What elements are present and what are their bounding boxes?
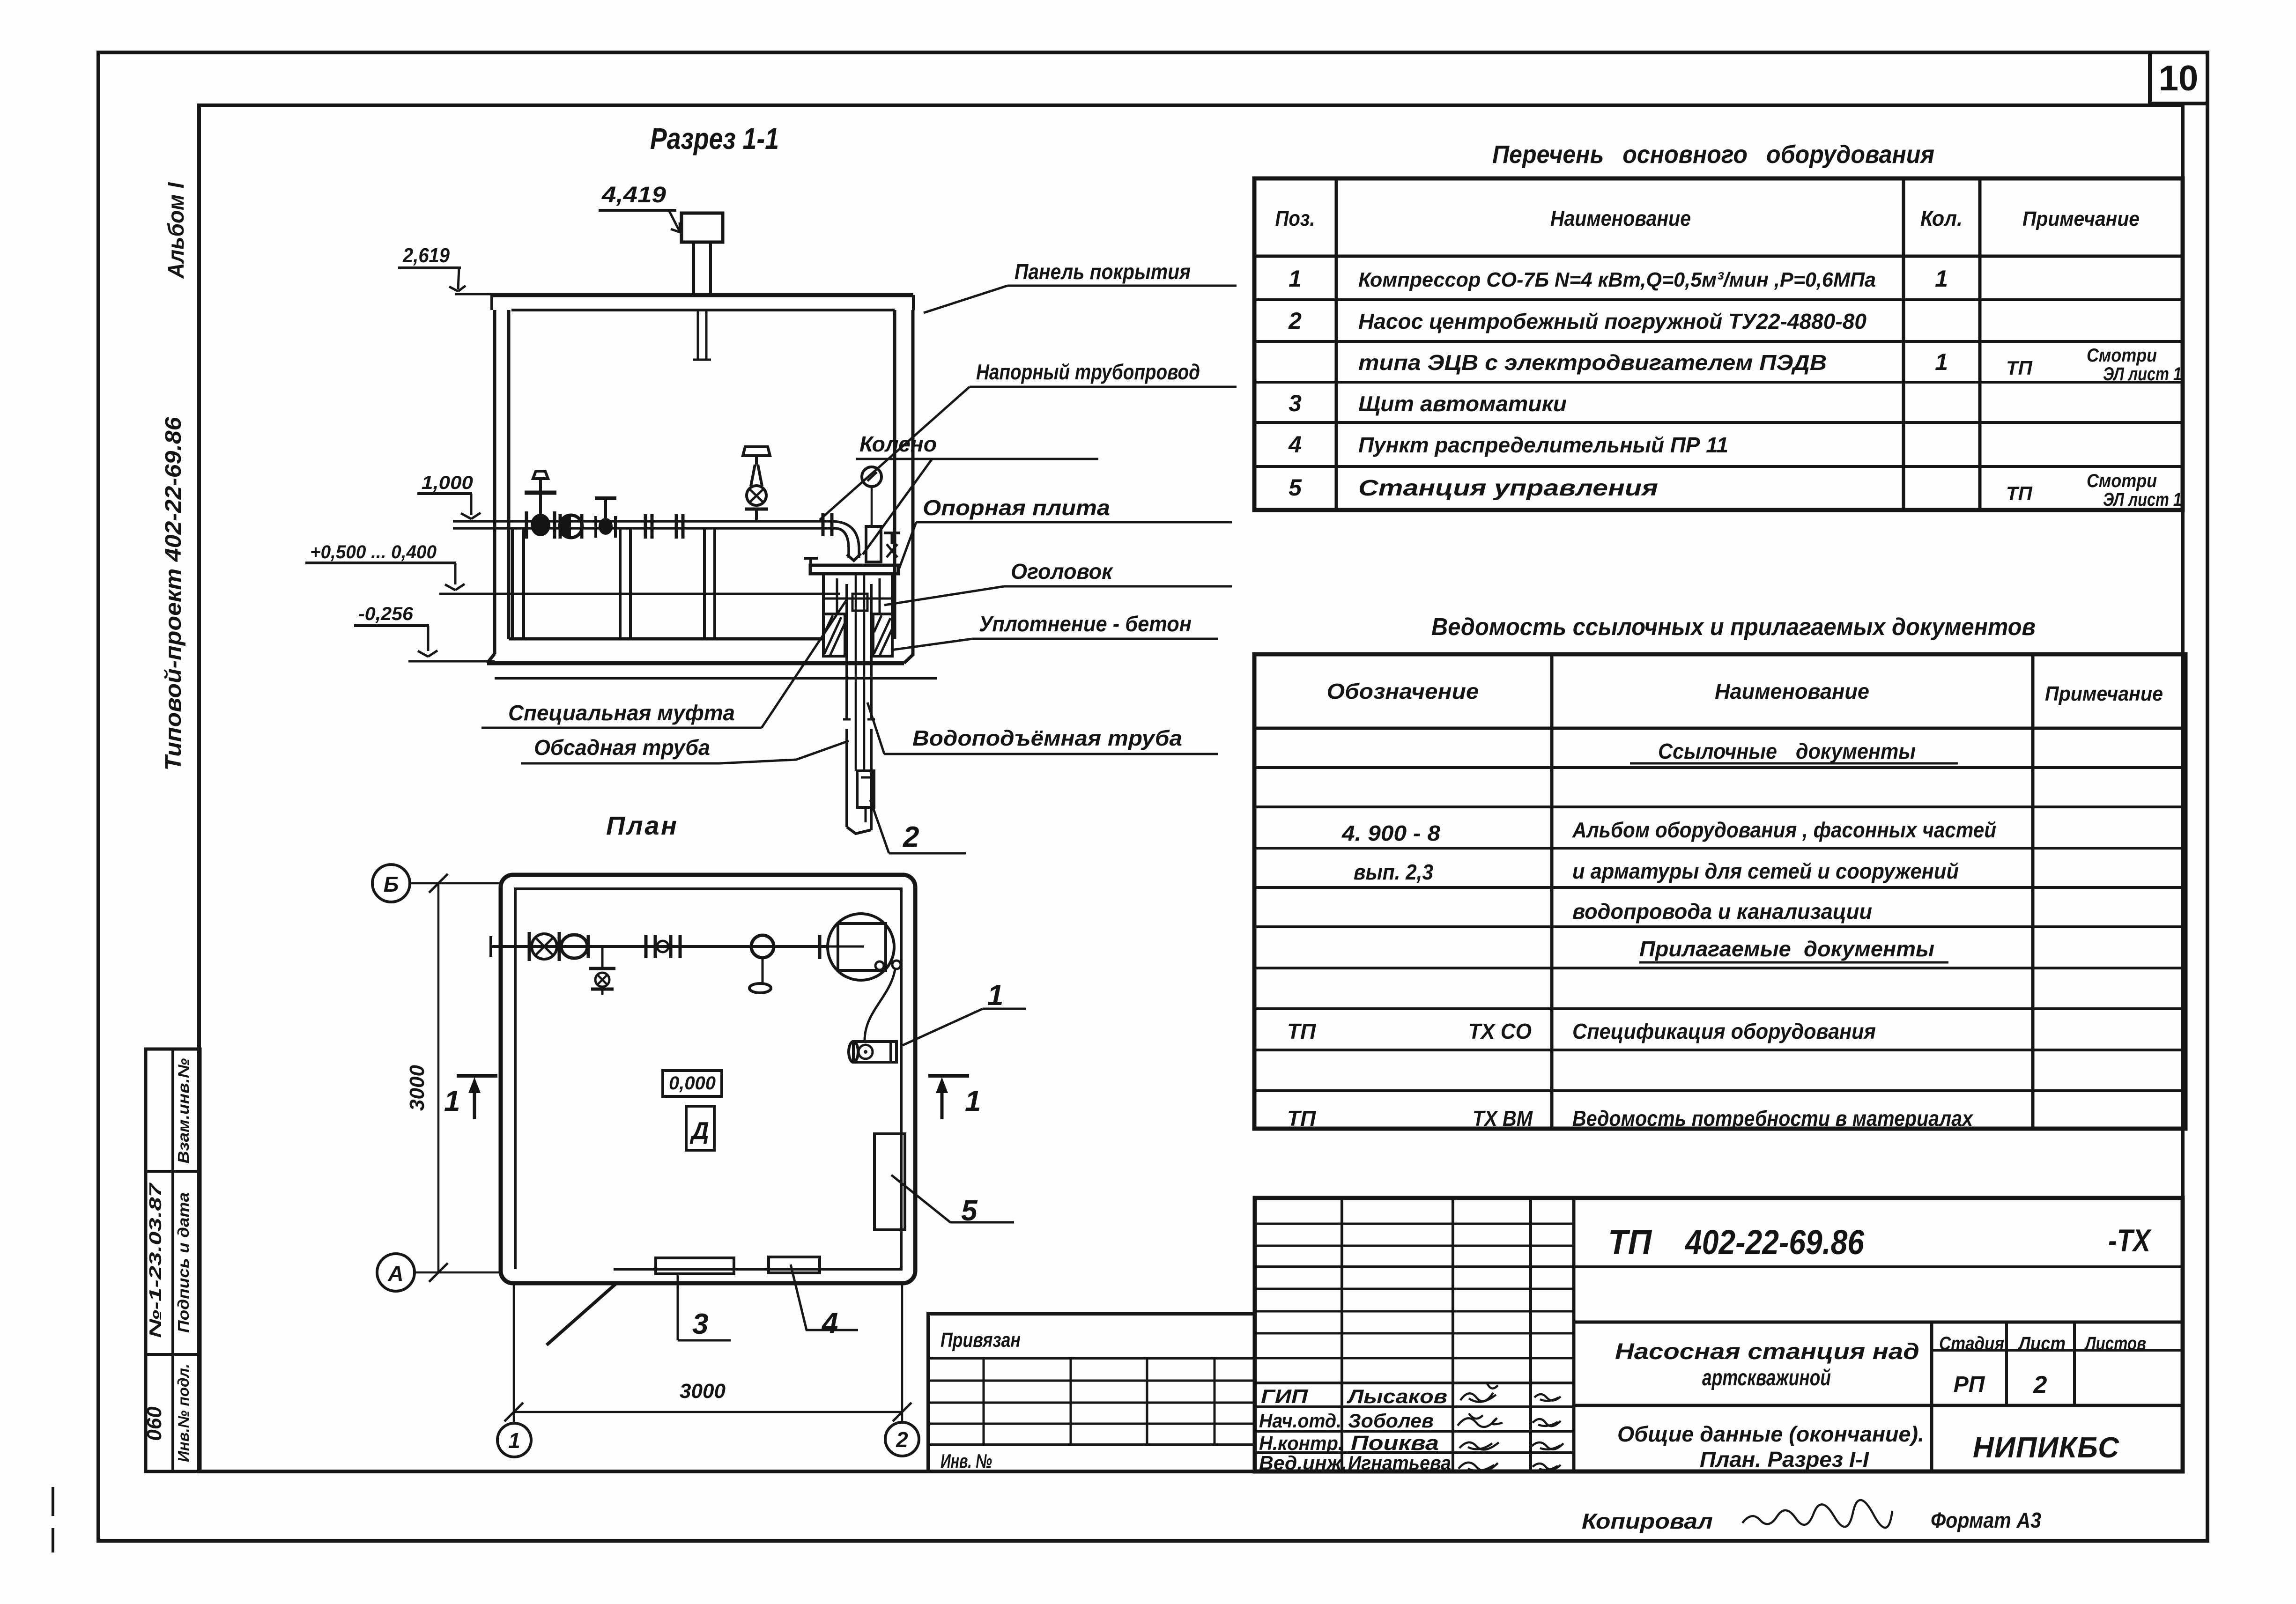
svg-text:Игнатьева: Игнатьева: [1348, 1452, 1451, 1474]
svg-text:Альбом оборудования , фасонных: Альбом оборудования , фасонных частей: [1572, 818, 1996, 842]
documents row: 4.900-8: [1341, 818, 1996, 845]
plan drain branch with small valve: [589, 946, 615, 995]
flange pair before elbow: [823, 513, 832, 536]
equipment table grid: [1254, 178, 2183, 510]
svg-text:10: 10: [2159, 59, 2199, 98]
label: Оголовок: [884, 559, 1232, 605]
svg-text:Поз.: Поз.: [1275, 206, 1315, 230]
flanged spool piece: [645, 514, 683, 539]
elevation mark -0,256: [354, 604, 495, 661]
elevation mark 1,000: [417, 473, 481, 519]
section mark 1 left: [444, 1076, 497, 1119]
label: Опорная плита: [899, 495, 1232, 568]
svg-text:5: 5: [1289, 474, 1302, 501]
svg-text:Обсадная труба: Обсадная труба: [534, 735, 710, 760]
label: Специальная муфта: [481, 599, 847, 728]
fold mark: [52, 1487, 54, 1552]
support plate (опорная плита): [804, 557, 898, 574]
svg-text:060: 060: [143, 1406, 166, 1441]
svg-text:Взам.инв.№: Взам.инв.№: [175, 1058, 192, 1163]
svg-text:Прилагаемые документы: Прилагаемые документы: [1639, 937, 1934, 961]
svg-text:Листов: Листов: [2084, 1333, 2146, 1354]
gate valve with handwheel: [525, 471, 556, 539]
plan flange at well: [818, 935, 822, 959]
vent chimney on roof: [681, 213, 723, 360]
svg-text:Обозначение: Обозначение: [1327, 679, 1479, 703]
plan valve round body: [561, 935, 588, 958]
interior floor line: [509, 637, 823, 641]
svg-text:1: 1: [987, 979, 1003, 1012]
plan gate valve (circle with cross): [529, 932, 559, 961]
horizontal dimension line 3000: [504, 1380, 911, 1421]
svg-text:Разрез 1-1: Разрез 1-1: [650, 122, 779, 155]
label: 5: [891, 1175, 1014, 1227]
elevation mark 2,619: [398, 244, 493, 294]
svg-text:Напорный трубопровод: Напорный трубопровод: [976, 360, 1200, 384]
svg-text:ТП: ТП: [2006, 357, 2033, 379]
svg-text:Насосная станция над: Насосная станция над: [1615, 1339, 1919, 1364]
grid circle А: [377, 1254, 501, 1291]
svg-text:1: 1: [1289, 266, 1302, 292]
svg-text:Формат А3: Формат А3: [1931, 1508, 2041, 1532]
svg-text:Вед.инж.: Вед.инж.: [1259, 1452, 1347, 1474]
svg-text:Лист: Лист: [2017, 1333, 2066, 1354]
grid circle 2: [885, 1284, 919, 1456]
svg-text:0,000: 0,000: [669, 1073, 716, 1094]
svg-text:1: 1: [444, 1085, 460, 1117]
svg-text:ТП: ТП: [1287, 1019, 1316, 1043]
svg-text:артскважиной: артскважиной: [1702, 1366, 1831, 1390]
title block: stage/sheet headers: [1939, 1333, 2146, 1398]
control valve on riser above pipe: [743, 447, 770, 521]
svg-text:1: 1: [1935, 266, 1948, 292]
svg-text:Б: Б: [384, 872, 399, 896]
svg-text:1: 1: [965, 1085, 981, 1117]
svg-text:ЭЛ лист 1: ЭЛ лист 1: [2103, 489, 2182, 510]
svg-text:4,419: 4,419: [601, 183, 666, 207]
label: Водоподъёмная труба: [867, 702, 1218, 754]
documents row: Прилагаемые документы: [1639, 937, 1948, 962]
building right wall: [895, 310, 913, 656]
equipment row 3: [1358, 345, 2182, 384]
inner drawing frame: [199, 105, 2183, 1471]
building left wall: [495, 310, 509, 654]
svg-text:ТП: ТП: [1287, 1106, 1316, 1131]
vertical dimension line 3000: [406, 874, 448, 1282]
cable from well to compressor: [865, 969, 895, 1041]
documents row: ТП ТХ СО: [1287, 1019, 1876, 1043]
bottom slab: [487, 654, 913, 663]
equipment box 4 on bottom wall: [769, 1257, 820, 1273]
svg-text:Типовой-проект 402-22-69.86: Типовой-проект 402-22-69.86: [161, 417, 186, 770]
svg-text:3000: 3000: [680, 1380, 726, 1403]
well casing pipe: [843, 584, 875, 834]
documents row: Ссылочные документы: [1630, 739, 1958, 763]
footer: Копировал / Формат А3: [1582, 1500, 2041, 1533]
equipment row 5: [1288, 431, 1728, 458]
pressure gauge: [862, 467, 881, 562]
svg-text:4: 4: [821, 1307, 838, 1339]
svg-text:ТП: ТП: [2006, 482, 2033, 504]
svg-text:А: А: [387, 1261, 403, 1286]
svg-text:№-1-23.03.87: №-1-23.03.87: [146, 1182, 165, 1338]
svg-text:План. Разрез I-I: План. Разрез I-I: [1700, 1447, 1869, 1471]
svg-text:Специальная муфта: Специальная муфта: [508, 701, 735, 725]
svg-text:Копировал: Копировал: [1582, 1509, 1713, 1533]
elevation mark +0,500...0,400: [305, 542, 465, 590]
wellhead box: [823, 574, 892, 614]
svg-text:Водоподъёмная труба: Водоподъёмная труба: [912, 726, 1182, 750]
svg-text:Альбом I: Альбом I: [164, 182, 189, 279]
water lifting pipe inside casing: [852, 574, 867, 771]
svg-text:ЭЛ лист 1: ЭЛ лист 1: [2103, 364, 2182, 384]
equipment row 6: [1289, 471, 2182, 510]
svg-text:2,619: 2,619: [402, 244, 450, 267]
svg-text:Ведомость потребности в матери: Ведомость потребности в материалах: [1572, 1106, 1974, 1131]
ground line under building: [495, 677, 937, 680]
left bottom strip table: [143, 1049, 200, 1471]
svg-text:Насос центробежный погружной Т: Насос центробежный погружной ТУ22-4880-8…: [1358, 309, 1866, 333]
svg-text:ГИП: ГИП: [1261, 1385, 1308, 1407]
concrete seal hatched right: [873, 614, 892, 656]
label: 2 (pump item): [870, 800, 966, 853]
svg-text:Опорная плита: Опорная плита: [923, 495, 1110, 520]
documents table grid: [1254, 654, 2185, 1129]
svg-text:3: 3: [1289, 390, 1302, 416]
svg-text:ТП: ТП: [1608, 1223, 1652, 1262]
pressure pipe (horizontal, with elbow down): [453, 521, 861, 561]
grid circle Б: [372, 865, 501, 902]
svg-text:Н.контр.: Н.контр.: [1259, 1432, 1343, 1454]
plan pipe: [489, 936, 829, 957]
title block: main frame: [1255, 1198, 2183, 1471]
svg-text:Зоболев: Зоболев: [1348, 1410, 1434, 1432]
pipe support posts: [512, 529, 715, 639]
svg-text:Ведомость ссылочных и прилагае: Ведомость ссылочных и прилагаемых докуме…: [1431, 614, 2036, 641]
title block: left extension (Привязан): [928, 1314, 1255, 1472]
equipment table header: [1275, 206, 2140, 230]
svg-text:-ТХ: -ТХ: [2108, 1223, 2152, 1258]
grid circle 1: [497, 1284, 531, 1457]
svg-text:2: 2: [896, 1427, 908, 1452]
svg-text:3: 3: [692, 1308, 708, 1340]
svg-text:Ссылочные документы: Ссылочные документы: [1658, 739, 1916, 763]
svg-text:Примечание: Примечание: [2022, 207, 2140, 230]
svg-text:4. 900 - 8: 4. 900 - 8: [1341, 821, 1441, 845]
small valve with stem: [595, 498, 616, 538]
0,000 level box: [663, 1071, 722, 1096]
plan inner wall: [515, 889, 901, 1269]
label: Напорный трубопровод: [820, 360, 1237, 520]
svg-text:Инв. №: Инв. №: [941, 1450, 992, 1472]
svg-text:Стадия: Стадия: [1939, 1333, 2004, 1354]
floor level line +0.4: [439, 593, 840, 595]
svg-text:Компрессор СО-7Б N=4 кВт,Q=: Компрессор СО-7Б N=4 кВт,Q=0,5м³/мин ,Р=…: [1358, 268, 1876, 291]
svg-text:2: 2: [2033, 1371, 2047, 1398]
equipment row 1: [1289, 266, 1948, 292]
svg-text:ТХ ВМ: ТХ ВМ: [1473, 1106, 1533, 1131]
svg-text:4: 4: [1288, 431, 1302, 458]
door opening and leaf: [547, 1284, 615, 1345]
documents row: ТП ТХ ВМ: [1287, 1106, 1974, 1131]
svg-text:Общие данные (окончание).: Общие данные (окончание).: [1617, 1422, 1924, 1446]
documents row: вып 2,3: [1354, 859, 1959, 884]
svg-text:Лысаков: Лысаков: [1347, 1385, 1447, 1407]
svg-text:Примечание: Примечание: [2045, 682, 2163, 705]
svg-text:Нач.отд.: Нач.отд.: [1259, 1410, 1341, 1432]
check valve (round body): [560, 514, 582, 539]
svg-text:-0,256: -0,256: [358, 604, 414, 624]
svg-text:РП: РП: [1954, 1372, 1985, 1397]
signatures squiggles: [1458, 1382, 1563, 1471]
label: Колено: [856, 432, 1098, 554]
svg-text:Подпись и дата: Подпись и дата: [175, 1192, 192, 1333]
svg-text:Перечень основного оборудовани: Перечень основного оборудования: [1492, 140, 1934, 169]
svg-text:Панель покрытия: Панель покрытия: [1015, 259, 1191, 284]
svg-text:1: 1: [1935, 349, 1948, 375]
cabinet 5 on right wall: [874, 1134, 905, 1230]
svg-text:Д: Д: [689, 1117, 709, 1145]
equipment row 4: [1289, 390, 1567, 416]
submersible pump: [857, 771, 874, 822]
svg-text:2: 2: [1288, 308, 1302, 334]
equipment box 3 on bottom wall: [656, 1258, 734, 1274]
title block: signature rows: [1259, 1385, 1451, 1474]
svg-text:и арматуры для сетей и сооруж: и арматуры для сетей и сооружений: [1572, 859, 1959, 883]
svg-text:Станция управления: Станция управления: [1358, 476, 1658, 501]
svg-text:Инв.№ подл.: Инв.№ подл.: [175, 1364, 192, 1462]
svg-text:ТХ СО: ТХ СО: [1468, 1019, 1532, 1043]
plan ball valve with stand: [749, 935, 774, 993]
svg-text:3000: 3000: [406, 1065, 429, 1111]
title block: object name: [1615, 1339, 1919, 1390]
section mark 1 right: [928, 1076, 981, 1119]
svg-text:Спецификация оборудования: Спецификация оборудования: [1572, 1019, 1876, 1043]
svg-text:Смотри: Смотри: [2087, 471, 2157, 491]
svg-text:1: 1: [508, 1428, 520, 1453]
svg-text:водопровода и канализации: водопровода и канализации: [1572, 899, 1872, 924]
svg-text:Пункт распределительный ПР 11: Пункт распределительный ПР 11: [1358, 433, 1728, 457]
title block: sheet name: [1617, 1422, 1924, 1471]
svg-text:Смотри: Смотри: [2087, 345, 2157, 366]
documents table header: [1327, 679, 2163, 705]
svg-text:типа ЭЦВ с электродвигателем П: типа ЭЦВ с электродвигателем ПЭДВ: [1358, 350, 1827, 375]
label: Обсадная труба: [521, 735, 849, 763]
svg-text:вып. 2,3: вып. 2,3: [1354, 860, 1433, 884]
small cock on baseplate: [884, 533, 900, 557]
label: Панель покрытия: [924, 259, 1237, 313]
svg-text:Щит автоматики: Щит автоматики: [1358, 392, 1567, 416]
plan flanged spool: [646, 935, 680, 958]
compressor unit (item 1): [849, 1042, 896, 1062]
svg-text:Кол.: Кол.: [1920, 206, 1963, 230]
well circle in plan: [828, 914, 901, 980]
svg-text:Привязан: Привязан: [941, 1329, 1021, 1352]
svg-text:Уплотнение - бетон: Уплотнение - бетон: [979, 612, 1192, 636]
svg-text:Колено: Колено: [859, 432, 937, 456]
label: 4: [791, 1264, 858, 1339]
building roof panel: [492, 295, 913, 310]
svg-text:Оголовок: Оголовок: [1011, 559, 1114, 584]
Д marker box: [686, 1106, 714, 1150]
svg-text:+0,500 ... 0,400: +0,500 ... 0,400: [310, 542, 437, 562]
svg-text:1,000: 1,000: [422, 473, 473, 493]
svg-text:Наименование: Наименование: [1550, 206, 1691, 230]
page number box: [2150, 52, 2207, 103]
svg-text:402-22-69.86: 402-22-69.86: [1684, 1223, 1864, 1262]
plan outer wall: [501, 875, 915, 1283]
label: 1 (compressor): [903, 979, 1026, 1045]
concrete seal hatched left: [823, 614, 845, 656]
svg-text:Наименование: Наименование: [1715, 679, 1869, 703]
equipment row 2: [1288, 308, 1866, 334]
svg-text:План: План: [606, 811, 683, 840]
label: Уплотнение - бетон: [891, 612, 1218, 650]
svg-text:2: 2: [903, 821, 919, 853]
label: 3: [678, 1274, 731, 1340]
svg-text:НИПИКБС: НИПИКБС: [1973, 1432, 2123, 1464]
elevation mark 4,419: [599, 183, 680, 232]
